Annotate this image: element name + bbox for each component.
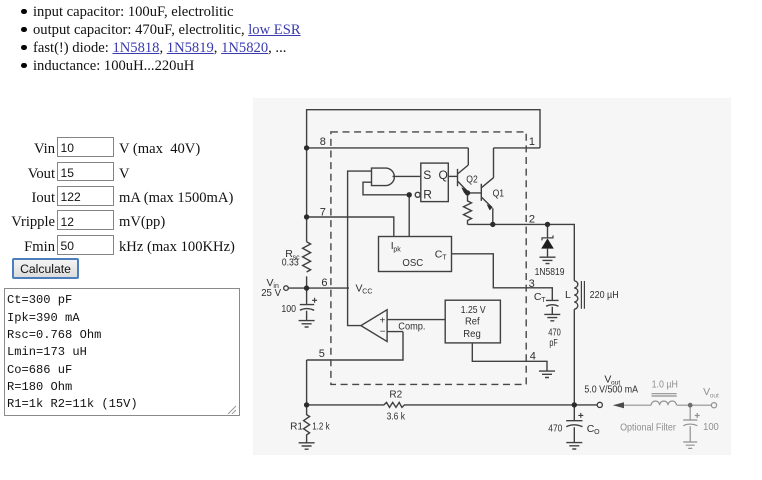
svg-text:7: 7 <box>320 206 326 218</box>
svg-text:−: − <box>380 327 386 338</box>
svg-text:Q2: Q2 <box>466 174 478 186</box>
svg-text:OSC: OSC <box>402 257 423 269</box>
svg-text:pk: pk <box>393 246 401 253</box>
svg-text:5.0 V/500 mA: 5.0 V/500 mA <box>584 384 638 396</box>
svg-text:2: 2 <box>529 214 535 226</box>
svg-text:1.0 µH: 1.0 µH <box>652 379 678 391</box>
svg-text:Optional Filter: Optional Filter <box>620 421 676 433</box>
svg-text:R2: R2 <box>389 388 402 400</box>
svg-text:1.2 k: 1.2 k <box>312 421 330 433</box>
svg-text:3: 3 <box>529 278 535 290</box>
svg-text:Reg: Reg <box>463 328 481 340</box>
svg-text:Ref: Ref <box>465 315 480 327</box>
svg-text:1N5819: 1N5819 <box>535 266 565 278</box>
svg-text:470: 470 <box>548 423 562 435</box>
svg-text:Q1: Q1 <box>493 187 505 199</box>
svg-text:25 V: 25 V <box>261 287 281 299</box>
svg-text:1.25 V: 1.25 V <box>461 304 486 316</box>
svg-text:R: R <box>423 188 432 202</box>
svg-text:T: T <box>541 297 546 304</box>
svg-text:5: 5 <box>319 348 325 360</box>
svg-text:100: 100 <box>281 303 296 315</box>
svg-text:8: 8 <box>320 136 326 148</box>
svg-text:6: 6 <box>321 277 327 289</box>
svg-text:Q: Q <box>439 168 448 182</box>
svg-text:O: O <box>594 429 600 436</box>
svg-text:220 µH: 220 µH <box>590 289 619 301</box>
svg-text:1: 1 <box>529 136 535 148</box>
svg-text:3.6 k: 3.6 k <box>387 411 406 423</box>
svg-text:100: 100 <box>703 421 719 433</box>
svg-text:4: 4 <box>530 350 536 362</box>
svg-text:out: out <box>710 392 719 399</box>
svg-text:R1: R1 <box>290 421 303 433</box>
svg-text:+: + <box>380 316 386 327</box>
svg-text:Comp.: Comp. <box>398 321 425 333</box>
svg-text:0.33: 0.33 <box>282 257 299 269</box>
svg-text:T: T <box>442 255 447 262</box>
svg-text:pF: pF <box>549 337 557 349</box>
svg-text:CC: CC <box>362 289 372 296</box>
svg-text:L: L <box>565 289 571 301</box>
svg-text:S: S <box>423 168 431 182</box>
